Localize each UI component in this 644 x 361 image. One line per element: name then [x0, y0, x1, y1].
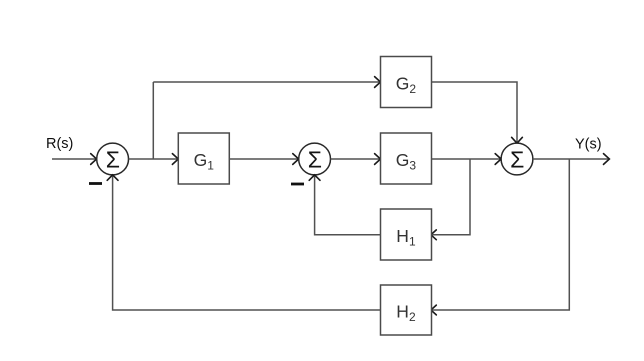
svg-text:Σ: Σ [308, 146, 322, 172]
wire G1 to S2 [229, 154, 298, 165]
wire S2 to G3 [331, 154, 381, 165]
block G2 [381, 57, 432, 108]
svg-text:R(s): R(s) [46, 136, 73, 152]
wire H2 output to S1 bottom [107, 175, 380, 310]
wire R(s) input [52, 154, 97, 165]
wire G3 to S3 [432, 154, 502, 165]
wire branch to G2 input [153, 77, 380, 88]
block G3 [381, 133, 432, 184]
block G1 [178, 133, 229, 184]
block H2 [381, 285, 432, 335]
wire G2 output to S3 top [432, 82, 523, 143]
wire branch G3 output down to H1 [431, 159, 470, 240]
wire H1 output to S2 bottom [309, 175, 380, 235]
minus sign at S1 [89, 182, 102, 185]
summing junction S3 [501, 143, 533, 175]
summing junction S1 [97, 143, 129, 175]
summing junction S2 [299, 143, 331, 175]
wire branch Y output down to H2 [431, 159, 569, 315]
svg-text:Σ: Σ [510, 146, 524, 172]
svg-text:Y(s): Y(s) [575, 137, 602, 153]
block H1 [381, 209, 432, 260]
svg-text:Σ: Σ [106, 146, 120, 172]
node branch to G2 [152, 82, 154, 159]
minus sign at S2 [291, 183, 304, 186]
wire S1 to G1 [129, 154, 179, 165]
wire S3 to Y(s) output [533, 154, 609, 165]
